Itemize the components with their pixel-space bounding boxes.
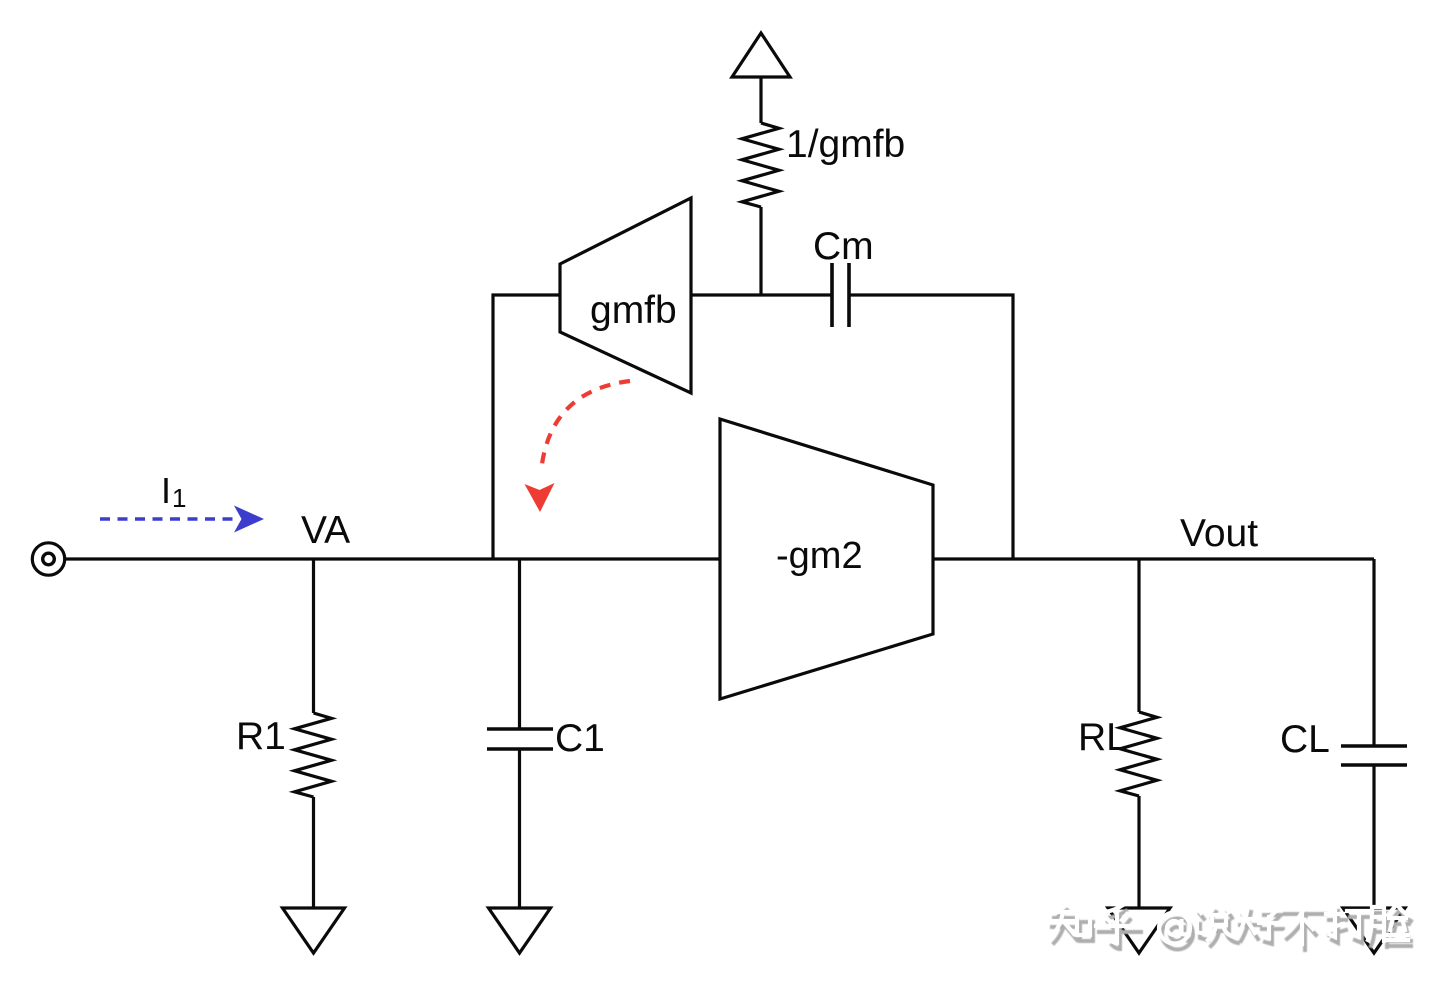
supply VDD triangle <box>732 33 790 77</box>
wire C1 upper <box>518 559 521 729</box>
resistor 1/gmfb <box>742 123 779 207</box>
ground C1 <box>489 908 551 953</box>
svg-text:gmfb: gmfb <box>590 289 677 332</box>
capacitor C1 <box>487 727 553 731</box>
wire CL lower <box>1372 765 1375 908</box>
svg-text:R1: R1 <box>236 715 286 758</box>
svg-text:CL: CL <box>1280 718 1330 761</box>
wire main horizontal right of -gm2 <box>933 557 1374 560</box>
svg-text:Cm: Cm <box>813 225 874 268</box>
op-amp gmfb <box>560 198 691 393</box>
wire CL upper <box>1372 559 1375 746</box>
wire 1/gmfb lower <box>759 207 762 295</box>
watermark zhihu <box>1049 904 1411 950</box>
watermark shadow layer <box>1052 910 1411 950</box>
wire C1 lower <box>518 749 521 908</box>
svg-text:I: I <box>161 470 171 511</box>
wire feedback left vertical <box>493 295 560 559</box>
current arrow red feedback <box>525 381 631 512</box>
op-amp -gm2 <box>720 419 933 699</box>
svg-text:1/gmfb: 1/gmfb <box>786 123 905 166</box>
wire R1 lower <box>312 797 315 908</box>
resistor R1 <box>295 713 332 797</box>
wire R1 upper <box>312 559 315 713</box>
ground R1 <box>283 908 345 953</box>
wire RL lower <box>1137 796 1140 908</box>
watermark white layer <box>1049 904 1408 944</box>
input port terminal <box>32 543 64 575</box>
svg-text:RL: RL <box>1078 716 1128 759</box>
wire RL upper <box>1137 559 1140 712</box>
svg-text:Vout: Vout <box>1180 512 1258 555</box>
capacitor CL <box>1341 744 1407 748</box>
ground RL <box>1108 908 1170 953</box>
wire Cm to right vertical <box>849 295 1013 559</box>
ground CL <box>1343 908 1405 953</box>
svg-text:VA: VA <box>301 509 350 552</box>
svg-text:C1: C1 <box>555 717 605 760</box>
svg-text:1: 1 <box>172 483 186 513</box>
wire gmfb output to Cm <box>691 293 832 296</box>
wire main horizontal left of -gm2 <box>66 557 720 560</box>
capacitor Cm <box>830 263 834 327</box>
resistor RL <box>1120 712 1157 796</box>
current I1 arrow <box>100 506 264 533</box>
svg-text:-gm2: -gm2 <box>776 535 863 577</box>
wire 1/gmfb upper <box>759 77 762 123</box>
